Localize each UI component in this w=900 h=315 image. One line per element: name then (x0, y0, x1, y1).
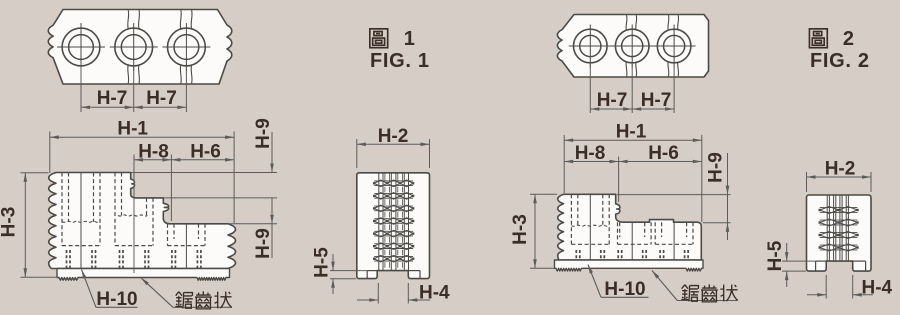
svg-text:H-9: H-9 (253, 228, 274, 259)
svg-text:2: 2 (843, 28, 854, 50)
svg-text:H-3: H-3 (0, 207, 20, 238)
svg-text:H-9: H-9 (253, 118, 274, 149)
svg-text:H-10: H-10 (96, 289, 137, 310)
svg-text:H-6: H-6 (190, 141, 221, 162)
svg-text:FIG. 1: FIG. 1 (370, 50, 429, 72)
svg-text:H-7: H-7 (597, 90, 628, 111)
svg-text:H-6: H-6 (648, 143, 679, 164)
svg-text:H-7: H-7 (641, 90, 672, 111)
svg-text:H-10: H-10 (604, 279, 645, 300)
svg-text:H-3: H-3 (510, 214, 531, 245)
svg-text:H-4: H-4 (862, 277, 893, 298)
svg-text:H-9: H-9 (706, 152, 727, 183)
svg-text:1: 1 (404, 28, 415, 50)
svg-text:H-8: H-8 (575, 143, 606, 164)
svg-text:H-8: H-8 (138, 141, 169, 162)
svg-text:H-7: H-7 (146, 88, 177, 109)
svg-text:H-1: H-1 (117, 119, 148, 140)
svg-text:H-2: H-2 (378, 126, 409, 147)
svg-text:H-4: H-4 (419, 283, 450, 304)
svg-text:H-7: H-7 (97, 88, 128, 109)
svg-text:H-5: H-5 (765, 240, 786, 271)
svg-text:FIG. 2: FIG. 2 (810, 50, 869, 72)
svg-text:H-1: H-1 (616, 122, 647, 143)
svg-text:H-5: H-5 (312, 247, 333, 278)
svg-text:H-2: H-2 (825, 159, 856, 180)
